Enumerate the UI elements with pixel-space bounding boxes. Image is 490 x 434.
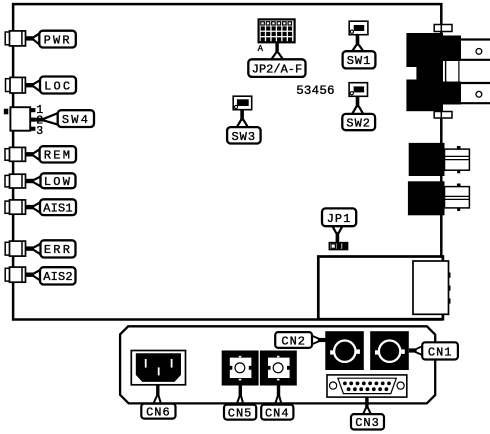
jumper block JP2 grid xyxy=(258,19,295,54)
bracket rectangle on sub board xyxy=(413,261,449,314)
rear panel outline xyxy=(120,326,435,403)
LED AIS2 xyxy=(5,267,25,282)
connector CN4 xyxy=(260,351,297,386)
svg-text:AIS2: AIS2 xyxy=(43,270,73,284)
label CN6 xyxy=(141,385,175,419)
svg-text:SW2: SW2 xyxy=(346,116,371,130)
LED LOW xyxy=(5,174,26,188)
svg-text:REM: REM xyxy=(44,149,72,163)
BNC connector pair (right middle) xyxy=(408,143,470,215)
BNC 2 barrel xyxy=(445,187,470,208)
LED PWR xyxy=(5,31,25,46)
DIN connector CN1 xyxy=(370,331,409,370)
BNC 1 barrel xyxy=(445,149,470,170)
switch SW3 icon xyxy=(233,96,252,110)
label LOC xyxy=(25,77,76,94)
mounting tab bottom xyxy=(434,112,452,119)
label JP1 xyxy=(322,208,356,242)
pin 2 xyxy=(30,118,35,122)
label SW2 xyxy=(342,96,375,130)
svg-text:LOC: LOC xyxy=(44,79,72,93)
BNC 2 block xyxy=(408,181,445,215)
svg-text:CN2: CN2 xyxy=(281,334,306,348)
mounting tab top xyxy=(434,25,452,32)
label AIS2 xyxy=(26,267,76,284)
label AIS1 xyxy=(26,199,77,215)
label SW1 xyxy=(343,35,376,69)
svg-text:ERR: ERR xyxy=(44,243,72,257)
svg-text:LOW: LOW xyxy=(44,175,72,189)
barrel top xyxy=(461,40,490,59)
label SW4 xyxy=(35,110,94,127)
jumper JP1 xyxy=(329,243,347,250)
switch SW1 icon xyxy=(349,21,368,35)
label CN5 xyxy=(224,386,256,421)
LED ERR xyxy=(5,241,25,256)
svg-text:JP1: JP1 xyxy=(327,212,352,226)
label REM xyxy=(26,146,77,162)
switch block SW4 xyxy=(4,104,43,138)
power inlet CN6 xyxy=(131,351,185,385)
svg-text:CN6: CN6 xyxy=(146,405,171,419)
LED AIS1 xyxy=(5,200,26,214)
svg-text:SW4: SW4 xyxy=(62,113,90,127)
svg-text:SW3: SW3 xyxy=(231,130,256,144)
svg-text:CN3: CN3 xyxy=(355,416,380,430)
connector assembly CON-TOP (dual coax, top right) xyxy=(405,25,490,119)
switch SW2 icon xyxy=(349,83,367,97)
svg-text:PWR: PWR xyxy=(44,33,72,47)
svg-text:A: A xyxy=(258,44,264,54)
barrel bottom xyxy=(461,83,490,103)
pin 3 xyxy=(30,127,35,131)
svg-text:53456: 53456 xyxy=(296,84,335,98)
svg-text:AIS1: AIS1 xyxy=(43,201,73,215)
neck gap xyxy=(445,62,460,82)
label CN4 xyxy=(261,386,293,421)
svg-text:JP2/A-F: JP2/A-F xyxy=(252,63,302,77)
svg-text:CN4: CN4 xyxy=(265,406,290,420)
label CN1 xyxy=(409,342,458,359)
svg-text:3: 3 xyxy=(36,125,43,138)
body xyxy=(406,33,443,111)
daughter-board sub rectangle (bottom right) xyxy=(318,257,443,320)
LED REM xyxy=(5,147,26,161)
barrel bottom pin hole xyxy=(476,91,482,97)
label CN3 xyxy=(351,397,384,430)
BNC 1 block xyxy=(409,143,445,176)
barrel top pin hole xyxy=(476,49,482,55)
svg-text:CN1: CN1 xyxy=(428,345,453,359)
board outline xyxy=(13,4,441,319)
label CN2 xyxy=(275,332,325,348)
label LOW xyxy=(26,173,76,189)
DIN connector CN2 xyxy=(325,331,364,370)
body notch xyxy=(405,67,416,80)
bracket ticks xyxy=(449,273,451,278)
pin 1 xyxy=(30,108,35,112)
threaded neck top xyxy=(443,36,461,62)
svg-text:CN5: CN5 xyxy=(228,406,253,420)
label SW3 xyxy=(227,110,261,144)
label JP2/A-F xyxy=(248,42,305,77)
threaded neck bottom xyxy=(443,82,461,105)
D-sub connector CN3 xyxy=(327,375,407,397)
svg-text:SW1: SW1 xyxy=(347,54,372,68)
LED LOC xyxy=(6,77,26,93)
label ERR xyxy=(26,240,76,257)
label PWR xyxy=(26,31,76,48)
connector CN5 xyxy=(222,351,259,386)
